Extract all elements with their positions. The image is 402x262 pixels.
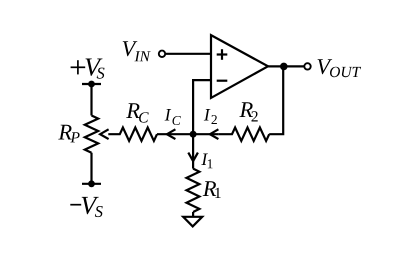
wire R1 to ground: [192, 212, 194, 217]
label V_IN: [123, 41, 151, 61]
resistor R1 zigzag: [187, 169, 200, 212]
label I2: [204, 109, 217, 124]
wire op-amp output to V_OUT terminal: [268, 65, 304, 67]
wire I2 arrow shaft to node: [193, 133, 218, 135]
resistor R_C zigzag: [108, 128, 157, 141]
wire R_P down to -V_S: [90, 153, 92, 184]
op-amp minus input marking: [217, 80, 228, 82]
label R2: [239, 102, 257, 121]
wire +V_S down to R_P: [90, 84, 92, 116]
wire from inverting input left then down to node: [193, 80, 211, 135]
label I_C: [165, 109, 181, 125]
terminal circle V_OUT: [304, 63, 310, 69]
current arrow I2 head: [210, 129, 219, 139]
node junction dot at output: [280, 63, 288, 71]
resistor R2 zigzag: [218, 128, 269, 141]
minus sign of -V_S: [70, 204, 81, 206]
op-amp plus input marking: [217, 49, 228, 60]
current arrow I_C head: [167, 129, 176, 139]
terminal -V_S dot: [88, 180, 95, 187]
plus sign of +V_S: [71, 60, 86, 74]
label R1: [203, 181, 221, 198]
label I1: [201, 154, 212, 169]
terminal +V_S dot: [88, 81, 95, 88]
node A junction dot (summing node): [190, 131, 197, 138]
terminal circle V_IN: [159, 51, 165, 57]
op-amp U1 triangle: [211, 35, 268, 98]
label -V_S: [82, 197, 103, 217]
current arrow I1 head: [188, 153, 198, 162]
terminal -V_S crossbar: [82, 183, 101, 185]
label R_C: [126, 103, 149, 122]
label V_OUT: [318, 59, 362, 77]
wire node to I_C arrow: [157, 133, 193, 135]
ground symbol: [183, 217, 202, 227]
label +V_S: [86, 59, 105, 79]
label R_P: [58, 125, 79, 143]
potentiometer R_P zigzag: [85, 116, 98, 153]
wire V_IN to op-amp noninverting input: [166, 53, 211, 55]
wire feedback: output down then left to R2: [269, 66, 283, 134]
wiper arrow into potentiometer R_P: [100, 129, 109, 139]
terminal +V_S crossbar: [82, 83, 101, 85]
wire node down to R1: [192, 134, 194, 168]
